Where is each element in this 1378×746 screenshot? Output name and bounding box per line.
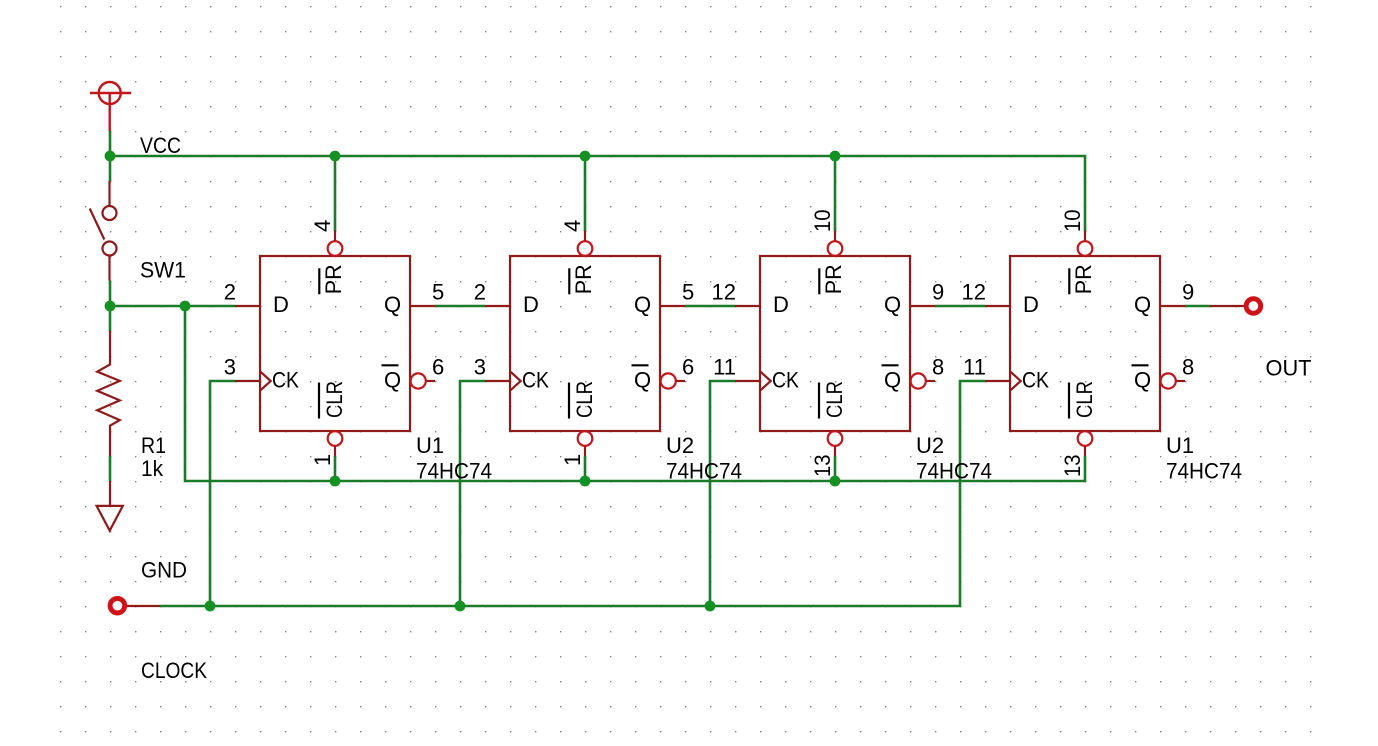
svg-text:6: 6 <box>432 355 444 380</box>
pin PR (pin 4) of U2A <box>584 231 586 242</box>
wire U2B Q to U1B D <box>935 305 985 308</box>
svg-text:PR: PR <box>571 264 596 294</box>
clock wedge <box>760 371 771 390</box>
wire resistor R1 to GND symbol <box>109 456 112 481</box>
svg-text:11: 11 <box>713 355 736 380</box>
svg-text:10: 10 <box>810 210 835 233</box>
svg-text:CLR: CLR <box>572 381 597 418</box>
svg-text:12: 12 <box>962 280 986 305</box>
svg-text:6: 6 <box>682 355 694 380</box>
svg-text:2: 2 <box>474 280 486 305</box>
svg-text:U2: U2 <box>916 433 944 458</box>
pin Q (pin 5) of U1A <box>410 305 435 307</box>
svg-text:9: 9 <box>1182 280 1194 305</box>
svg-text:OUT: OUT <box>1266 356 1312 381</box>
CLR inversion bubble <box>1078 431 1093 446</box>
svg-text:Q: Q <box>634 292 651 317</box>
svg-text:9: 9 <box>932 280 944 305</box>
flip-flop U1A body <box>260 256 410 431</box>
svg-text:74HC74: 74HC74 <box>1166 458 1242 483</box>
pin D (pin 2) of U2A <box>485 305 510 307</box>
pin D (pin 12) of U2B <box>735 305 760 307</box>
svg-text:Q: Q <box>384 292 401 317</box>
supply symbol VCC <box>90 82 131 131</box>
pin label PR with overbar <box>568 268 570 294</box>
junction dot at (335,156) <box>330 151 341 162</box>
CLR inversion bubble <box>578 431 593 446</box>
wire from VCC rail down to switch SW1 <box>109 156 112 181</box>
svg-text:1: 1 <box>560 454 585 466</box>
pin CK (pin 11) of U2B <box>735 380 760 382</box>
pin label PR with overbar <box>318 268 320 294</box>
svg-text:13: 13 <box>810 455 835 478</box>
junction dot at (335,481) <box>330 476 341 487</box>
junction dot at (110,306) <box>105 301 116 312</box>
svg-text:VCC: VCC <box>140 133 181 158</box>
pin Qbar (pin 8) of U1B <box>1176 380 1185 382</box>
svg-text:U1: U1 <box>1166 433 1194 458</box>
pin PR (pin 10) of U1B <box>1084 231 1086 242</box>
pin D (pin 2) of U1A <box>235 305 260 307</box>
PR inversion bubble <box>828 241 843 256</box>
svg-text:1k: 1k <box>141 456 164 481</box>
pin Qbar (pin 6) of U1A <box>426 380 435 382</box>
svg-text:5: 5 <box>682 280 694 305</box>
CLR inversion bubble <box>828 431 843 446</box>
svg-text:8: 8 <box>932 355 944 380</box>
wire U1A Q to U2A D <box>435 305 485 308</box>
pin Qbar (pin 8) of U2B <box>926 380 935 382</box>
pin Q (pin 5) of U2A <box>660 305 685 307</box>
junction dot at (835,156) <box>830 151 841 162</box>
junction dot at (185,306) <box>180 301 191 312</box>
svg-text:CLR: CLR <box>1072 381 1097 418</box>
net CLOCK rail from terminal to all CK pins <box>160 381 985 606</box>
svg-text:SW1: SW1 <box>140 258 186 283</box>
pin label CLR with overbar <box>568 383 570 419</box>
svg-text:R1: R1 <box>141 433 166 458</box>
svg-text:PR: PR <box>821 264 846 294</box>
svg-text:D: D <box>1023 292 1039 317</box>
svg-text:D: D <box>273 292 289 317</box>
svg-text:Q: Q <box>634 368 651 393</box>
wire node to resistor R1 <box>109 306 112 331</box>
pin label Qbar (Q with overbar) <box>882 364 899 366</box>
svg-text:Q: Q <box>384 368 401 393</box>
junction dot at (110,156) <box>105 151 116 162</box>
svg-text:Q: Q <box>884 292 901 317</box>
junction dot at (460,606) <box>455 601 466 612</box>
resistor R1 <box>97 331 120 456</box>
pin Qbar (pin 6) of U2A <box>676 380 685 382</box>
pin PR (pin 10) of U2B <box>834 231 836 242</box>
svg-text:3: 3 <box>474 355 486 380</box>
PR inversion bubble <box>1078 241 1093 256</box>
svg-text:12: 12 <box>712 280 736 305</box>
pin label PR with overbar <box>1068 268 1070 294</box>
svg-text:5: 5 <box>432 280 444 305</box>
svg-text:CK: CK <box>522 368 549 393</box>
ground symbol GND <box>97 481 123 531</box>
pin CLR (pin 13) of U1B <box>1084 446 1086 456</box>
wire D-input node to U1A pin D <box>110 305 235 308</box>
svg-text:74HC74: 74HC74 <box>916 458 992 483</box>
pin label CLR with overbar <box>818 383 820 419</box>
pin CLR (pin 1) of U1A <box>334 446 336 456</box>
svg-text:U2: U2 <box>666 433 694 458</box>
pin CLR (pin 13) of U2B <box>834 446 836 456</box>
junction dot at (835,481) <box>830 476 841 487</box>
svg-text:13: 13 <box>1060 455 1085 478</box>
wire U1B Q to OUT terminal <box>1185 305 1210 308</box>
pin CK (pin 3) of U2A <box>485 380 510 382</box>
pin label PR with overbar <box>818 268 820 294</box>
Qbar inversion bubble <box>411 373 426 388</box>
pin PR (pin 4) of U1A <box>334 231 336 242</box>
svg-text:Q: Q <box>884 368 901 393</box>
junction dot at (210,606) <box>205 601 216 612</box>
pin label Qbar (Q with overbar) <box>632 364 649 366</box>
svg-text:Q: Q <box>1134 368 1151 393</box>
svg-text:10: 10 <box>1060 210 1085 233</box>
svg-text:Q: Q <box>1134 292 1151 317</box>
wire from switch SW1 to D-input node <box>109 281 112 307</box>
svg-text:3: 3 <box>224 355 236 380</box>
svg-text:11: 11 <box>963 355 986 380</box>
svg-text:CK: CK <box>772 368 799 393</box>
pin Q (pin 9) of U1B <box>1160 305 1185 307</box>
PR inversion bubble <box>578 241 593 256</box>
pin CK (pin 3) of U1A <box>235 380 260 382</box>
svg-text:U1: U1 <box>416 433 444 458</box>
clock wedge <box>260 371 271 390</box>
net CLR rail: vertical drop and horizontal rail connecting all CLR pins <box>185 306 1085 481</box>
junction dot at (585,481) <box>580 476 591 487</box>
CLR inversion bubble <box>328 431 343 446</box>
clock wedge <box>510 371 521 390</box>
svg-text:74HC74: 74HC74 <box>416 458 492 483</box>
pin label CLR with overbar <box>318 383 320 419</box>
pin CLR (pin 1) of U2A <box>584 446 586 456</box>
wire U2A Q to U2B D <box>685 305 735 308</box>
svg-text:D: D <box>523 292 539 317</box>
PR inversion bubble <box>328 241 343 256</box>
net VCC wire: supply rail <box>110 131 1085 231</box>
svg-text:PR: PR <box>1071 264 1096 294</box>
Qbar inversion bubble <box>661 373 676 388</box>
pin label Qbar (Q with overbar) <box>382 364 399 366</box>
flip-flop U2A body <box>510 256 660 431</box>
pin CK (pin 11) of U1B <box>985 380 1010 382</box>
svg-text:PR: PR <box>321 264 346 294</box>
clock wedge <box>1010 371 1021 390</box>
junction dot at (585,156) <box>580 151 591 162</box>
svg-text:1: 1 <box>310 454 335 466</box>
terminal CLOCK <box>110 598 160 613</box>
svg-text:CLR: CLR <box>322 381 347 418</box>
flip-flop U2B body <box>760 256 910 431</box>
pin label Qbar (Q with overbar) <box>1132 364 1149 366</box>
flip-flop U1B body <box>1010 256 1160 431</box>
svg-text:74HC74: 74HC74 <box>666 458 742 483</box>
Qbar inversion bubble <box>911 373 926 388</box>
switch SW1 <box>90 181 117 281</box>
svg-text:CLOCK: CLOCK <box>141 658 207 683</box>
pin label CLR with overbar <box>1068 383 1070 419</box>
svg-text:4: 4 <box>560 220 585 232</box>
svg-text:CK: CK <box>1022 368 1049 393</box>
pin Q (pin 9) of U2B <box>910 305 935 307</box>
svg-text:CLR: CLR <box>822 381 847 418</box>
Qbar inversion bubble <box>1161 373 1176 388</box>
svg-text:GND: GND <box>141 558 187 583</box>
svg-text:D: D <box>773 292 789 317</box>
svg-text:8: 8 <box>1182 355 1194 380</box>
junction dot at (710,606) <box>705 601 716 612</box>
svg-text:2: 2 <box>224 280 236 305</box>
svg-text:4: 4 <box>310 220 335 232</box>
pin D (pin 12) of U1B <box>985 305 1010 307</box>
terminal OUT <box>1210 299 1261 314</box>
svg-text:CK: CK <box>272 368 299 393</box>
